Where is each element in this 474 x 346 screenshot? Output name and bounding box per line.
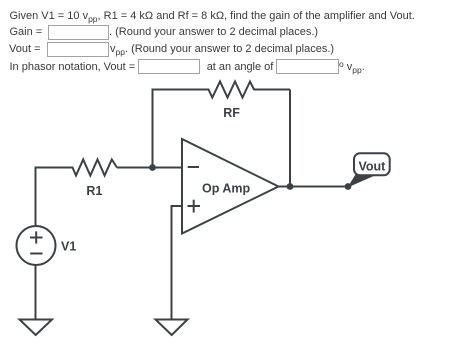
svg-text:Op Amp: Op Amp [202,182,251,196]
wire: V1 bottom to ground [35,265,37,320]
phasor label [10,61,136,74]
wire: feedback left vertical [152,90,154,168]
ground (left) [20,320,53,336]
problem statement line 1 [10,10,415,23]
svg-text:RF: RF [223,106,240,120]
voltage source V1 [17,226,56,265]
wire: V1 top to R1 level [35,168,37,227]
phasor magnitude input box [138,59,200,74]
svg-text:Vout: Vout [359,159,387,173]
wire: op-amp output [279,186,349,188]
phasor mid text [207,61,274,74]
phasor angle input box [276,59,339,74]
gain hint text [109,26,318,39]
resistor RF [152,82,291,98]
op-amp U1 [182,139,279,234]
phasor unit text [339,61,365,74]
vout hint text [110,43,334,56]
vout input box [47,42,109,57]
node: inverting input junction [149,164,156,171]
svg-text:V1: V1 [61,239,76,253]
wire: non-inverting input to ground [172,206,183,320]
ground (right) [156,320,188,336]
node: Vout tap [345,183,352,190]
Vout callout [348,153,390,187]
node: output junction [287,183,294,190]
svg-text:R1: R1 [86,184,102,198]
gain label [10,26,43,39]
gain input box [48,25,109,40]
wire: feedback right vertical [289,90,291,187]
vout label [9,43,41,56]
wire: R1 to inverting input [117,167,182,169]
resistor R1 [35,160,118,176]
